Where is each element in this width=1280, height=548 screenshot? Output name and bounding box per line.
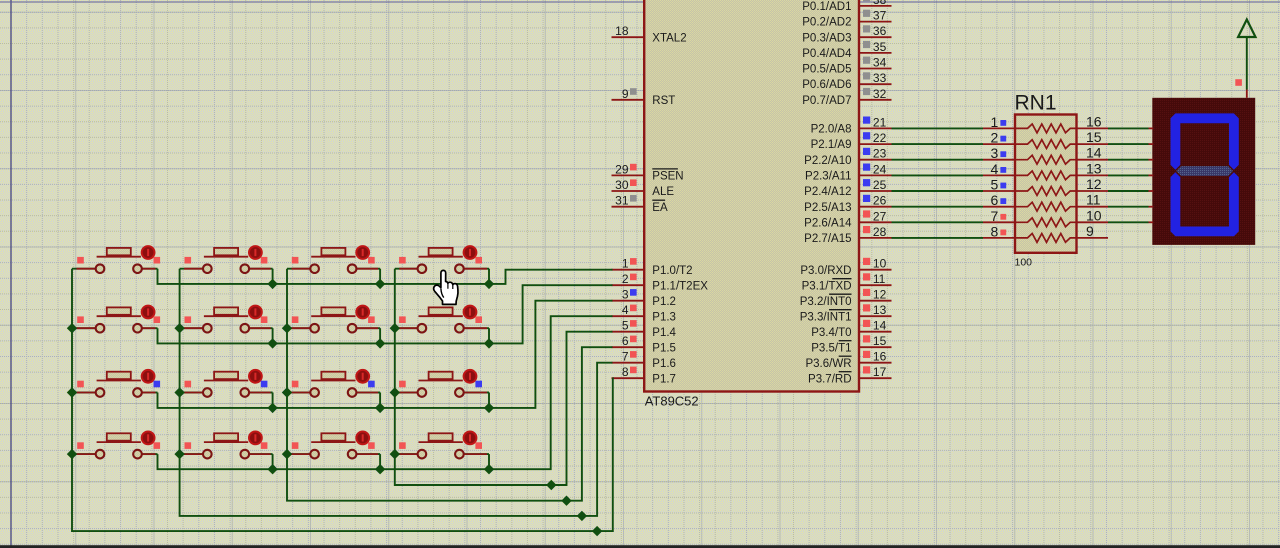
svg-text:8: 8: [622, 365, 629, 379]
svg-text:16: 16: [1086, 113, 1102, 129]
svg-text:2: 2: [622, 272, 629, 286]
svg-text:31: 31: [615, 194, 629, 208]
svg-text:1: 1: [622, 257, 629, 271]
svg-text:38: 38: [873, 0, 887, 7]
svg-text:P1.3: P1.3: [652, 311, 676, 323]
svg-text:ALE: ALE: [652, 186, 674, 198]
svg-text:11: 11: [1086, 192, 1101, 208]
svg-text:XTAL2: XTAL2: [652, 32, 686, 44]
svg-text:12: 12: [1086, 176, 1102, 192]
svg-text:4: 4: [622, 303, 629, 317]
svg-text:P3.2/INT0: P3.2/INT0: [800, 296, 852, 308]
svg-text:5: 5: [991, 177, 999, 193]
svg-text:16: 16: [873, 350, 887, 364]
svg-text:P0.7/AD7: P0.7/AD7: [802, 95, 851, 107]
svg-text:P3.6/WR: P3.6/WR: [805, 358, 851, 370]
svg-text:37: 37: [873, 9, 887, 23]
svg-text:P3.3/INT1: P3.3/INT1: [800, 311, 852, 323]
svg-text:9: 9: [1086, 223, 1094, 239]
svg-text:29: 29: [615, 162, 629, 176]
svg-text:15: 15: [1086, 129, 1102, 145]
svg-text:P1.5: P1.5: [652, 342, 676, 354]
svg-text:26: 26: [873, 194, 887, 208]
svg-text:P2.2/A10: P2.2/A10: [804, 155, 851, 167]
svg-text:22: 22: [873, 131, 887, 145]
svg-text:P2.3/A11: P2.3/A11: [805, 171, 851, 183]
svg-text:6: 6: [622, 334, 629, 348]
svg-text:25: 25: [873, 178, 887, 192]
svg-text:32: 32: [873, 87, 887, 101]
svg-text:3: 3: [622, 288, 629, 302]
svg-text:5: 5: [622, 319, 629, 333]
svg-text:7: 7: [991, 208, 999, 224]
svg-text:10: 10: [1086, 207, 1102, 223]
svg-text:AT89C52: AT89C52: [645, 394, 699, 409]
svg-text:14: 14: [1086, 145, 1102, 161]
svg-text:P1.6: P1.6: [652, 358, 676, 370]
svg-text:P0.6/AD6: P0.6/AD6: [802, 79, 851, 91]
svg-text:PSEN: PSEN: [652, 171, 683, 183]
svg-text:13: 13: [1086, 160, 1102, 176]
svg-text:24: 24: [873, 162, 887, 176]
svg-text:17: 17: [873, 365, 887, 379]
svg-text:P0.4/AD4: P0.4/AD4: [802, 48, 852, 60]
svg-text:34: 34: [873, 56, 887, 70]
svg-text:28: 28: [873, 225, 887, 239]
svg-text:P3.5/T1: P3.5/T1: [811, 342, 851, 354]
svg-text:23: 23: [873, 147, 887, 161]
svg-text:21: 21: [873, 115, 887, 129]
svg-text:100: 100: [1015, 257, 1033, 269]
svg-text:RST: RST: [652, 95, 675, 107]
svg-text:4: 4: [991, 161, 999, 177]
svg-text:3: 3: [991, 145, 999, 161]
svg-text:P0.5/AD5: P0.5/AD5: [802, 64, 851, 76]
svg-text:P2.4/A12: P2.4/A12: [804, 186, 851, 198]
svg-text:35: 35: [873, 40, 887, 54]
svg-text:27: 27: [873, 209, 887, 223]
svg-text:EA: EA: [652, 202, 668, 214]
svg-text:P1.0/T2: P1.0/T2: [652, 265, 692, 277]
svg-text:14: 14: [873, 319, 887, 333]
svg-text:P2.5/A13: P2.5/A13: [804, 202, 851, 214]
svg-text:8: 8: [991, 223, 999, 239]
svg-text:P1.2: P1.2: [652, 296, 676, 308]
svg-text:P0.3/AD3: P0.3/AD3: [802, 32, 851, 44]
svg-text:P2.7/A15: P2.7/A15: [804, 233, 851, 245]
svg-text:12: 12: [873, 288, 887, 302]
svg-text:10: 10: [873, 257, 887, 271]
svg-text:2: 2: [991, 130, 999, 146]
svg-text:RN1: RN1: [1015, 92, 1057, 115]
svg-text:30: 30: [615, 178, 629, 192]
svg-text:P1.1/T2EX: P1.1/T2EX: [652, 280, 708, 292]
svg-text:13: 13: [873, 303, 887, 317]
svg-text:11: 11: [873, 272, 886, 286]
svg-text:33: 33: [873, 71, 887, 85]
svg-text:15: 15: [873, 334, 887, 348]
svg-text:P2.6/A14: P2.6/A14: [804, 217, 852, 229]
svg-text:1: 1: [991, 114, 999, 130]
svg-text:P3.0/RXD: P3.0/RXD: [800, 265, 851, 277]
svg-text:P1.4: P1.4: [652, 327, 676, 339]
svg-text:P0.2/AD2: P0.2/AD2: [802, 17, 851, 29]
svg-text:9: 9: [622, 87, 629, 101]
svg-text:7: 7: [622, 350, 629, 364]
svg-text:P1.7: P1.7: [652, 373, 676, 385]
svg-text:P2.1/A9: P2.1/A9: [811, 139, 852, 151]
svg-text:P3.1/TXD: P3.1/TXD: [802, 280, 852, 292]
svg-text:P0.1/AD1: P0.1/AD1: [802, 1, 851, 13]
svg-text:36: 36: [873, 24, 887, 38]
svg-text:6: 6: [991, 192, 999, 208]
svg-text:P3.7/RD: P3.7/RD: [808, 373, 851, 385]
svg-text:18: 18: [615, 24, 629, 38]
svg-text:P2.0/A8: P2.0/A8: [811, 124, 852, 136]
svg-text:P3.4/T0: P3.4/T0: [811, 327, 851, 339]
